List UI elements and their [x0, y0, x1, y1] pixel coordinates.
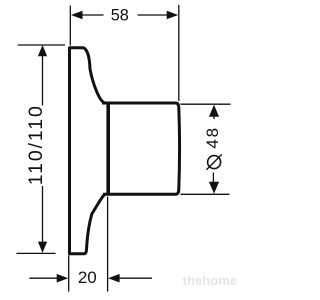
dim O48: top arrow [209, 105, 219, 117]
svg-text:48: 48 [203, 126, 222, 149]
dim O48: top extension line [181, 103, 231, 105]
svg-text:58: 58 [111, 7, 129, 25]
dim 110/110: bottom extension line [17, 252, 56, 254]
dim 58: right arrow [167, 11, 179, 19]
bell/knob junction line [106, 104, 110, 194]
dim O48: bottom extension line [181, 193, 230, 195]
dim O48: dimension line lower segment [212, 173, 214, 184]
dim 58: left arrow [71, 11, 83, 19]
dim 20: right extension line [107, 197, 109, 292]
dim 20: left arrow (pointing right) [57, 274, 68, 283]
dim 20: left tail line [29, 277, 59, 279]
dim O48: dimension line upper segment [213, 116, 215, 120]
dim 58: dimension line left segment [82, 14, 104, 16]
escutcheon flange + bell profile outline [68, 48, 107, 254]
dim O48: bottom arrow [209, 182, 219, 194]
svg-text:thehome: thehome [183, 273, 238, 288]
dim 20: right tail line [119, 277, 153, 279]
svg-text:20: 20 [78, 268, 97, 287]
svg-text:110/110: 110/110 [25, 104, 47, 185]
knob cylinder outline (top edge, convex right face, bottom edge) [102, 103, 180, 194]
dim 110/110: dimension line upper segment [42, 54, 44, 106]
dim 58: left extension line [69, 6, 71, 46]
dim 110/110: dimension line lower segment [42, 186, 44, 244]
dim 110/110: bottom arrow [38, 242, 47, 253]
dim 20: left extension line [68, 256, 70, 292]
dim 20: right arrow (pointing left) [108, 274, 120, 283]
dim 110/110: top arrow [38, 45, 47, 56]
dim 58: dimension line right segment [138, 14, 168, 16]
dim O48: diameter symbol slash [206, 154, 221, 170]
dim 110/110: top extension line [18, 44, 65, 46]
dim O48: diameter symbol circle [208, 156, 221, 169]
dim 58: right extension line [178, 5, 180, 101]
